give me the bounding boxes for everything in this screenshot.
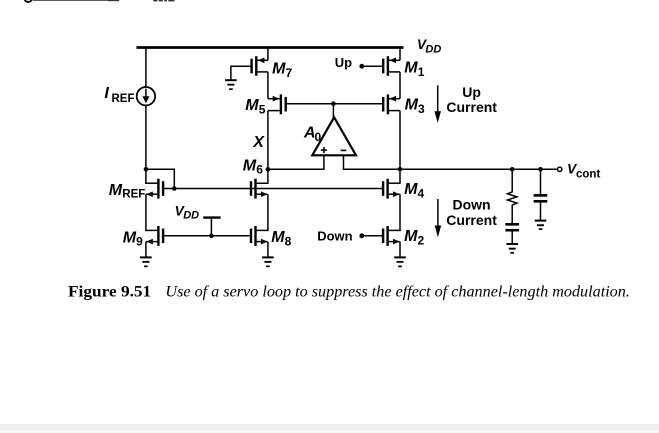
page break grey bar [0, 424, 659, 431]
transistor M6 [254, 179, 256, 199]
svg-text:Figure 9.51Use of a servo loop: Figure 9.51Use of a servo loop to suppre… [68, 284, 630, 301]
svg-text:5: 5 [259, 102, 266, 116]
svg-text:M: M [243, 157, 257, 174]
node resistor tap junction dot [510, 167, 515, 172]
wire capacitor C1 to ground [511, 232, 513, 244]
wire rail to M1 source [399, 48, 401, 61]
wire Up switch to M1 gate [363, 65, 382, 67]
svg-text:1: 1 [418, 65, 425, 79]
wire node X to plus input [268, 168, 324, 170]
wire minus input to Vcont line [344, 168, 558, 170]
VDD tap bar [203, 216, 220, 218]
top cut-off text remnant: letter bottoms group 2 [153, 0, 157, 1]
svg-text:M: M [405, 97, 419, 114]
svg-text:M: M [272, 61, 286, 78]
wire rail to M7 source [267, 48, 269, 61]
node Up input dot [359, 64, 364, 69]
node Down input dot [359, 233, 364, 238]
Down current arrow [437, 199, 439, 227]
wire M4 source to M2 drain [399, 194, 401, 231]
wire Down switch to M2 gate [363, 235, 382, 237]
svg-text:M: M [123, 229, 137, 246]
ground below C1 [506, 243, 518, 245]
top cut-off text remnant: rule line [33, 0, 115, 2]
node capacitor C2 tap junction dot [538, 167, 543, 172]
op-amp plus input sign [321, 149, 327, 151]
wire Vcont to resistor R1 [511, 169, 513, 192]
wire gate bus MREF to M6 and M4 [164, 188, 382, 190]
svg-text:6: 6 [256, 163, 263, 177]
wire rail to IREF source [145, 48, 147, 88]
svg-text:I: I [104, 85, 109, 102]
wire M2 source to ground [399, 242, 401, 257]
ground below M8 [262, 256, 274, 258]
svg-text:X: X [252, 134, 265, 151]
wire M1 drain to M3 source [399, 72, 401, 99]
wire MREF drain lead [145, 182, 157, 184]
transistor M3 [387, 94, 389, 114]
wire M3 drain to Vcont node [399, 111, 401, 184]
wire op-amp output stub [332, 104, 334, 119]
capacitor C2 plates [534, 194, 548, 197]
svg-text:7: 7 [286, 66, 293, 80]
ground below C2 [535, 220, 547, 222]
svg-text:DD: DD [425, 44, 441, 56]
Up current arrow [437, 85, 439, 112]
wire M7 gate to ground [231, 66, 251, 79]
wire VDD tap vertical [210, 218, 212, 236]
transistor M1 [387, 56, 389, 76]
wire IREF to node A [145, 105, 147, 183]
current source IREF circle [137, 87, 155, 105]
svg-text:REF: REF [122, 189, 145, 201]
svg-text:0: 0 [315, 130, 322, 144]
wire op-amp minus input stub [343, 155, 345, 170]
wire M7 drain to M5 source [267, 72, 269, 99]
transistor M9 [157, 226, 159, 246]
svg-text:cont: cont [576, 168, 600, 180]
resistor R1 zigzag [508, 192, 517, 205]
transistor M2 [386, 226, 388, 246]
wire gate bus M5 to M3 with op-amp output [287, 103, 382, 105]
wire M5 drain to node X column [267, 111, 269, 170]
wire Vcont to capacitor C2 [540, 169, 542, 194]
svg-text:4: 4 [418, 186, 425, 200]
svg-text:Current: Current [446, 99, 497, 115]
svg-text:Up: Up [335, 55, 352, 70]
wire MREF gate tie (diode connection) [146, 169, 174, 188]
svg-text:8: 8 [285, 234, 292, 248]
wire M8 drain lead [257, 229, 269, 231]
svg-text:Up: Up [462, 84, 481, 100]
op-amp A0 triangle [312, 117, 356, 155]
top cut-off text remnant: letter bottoms group 1 [108, 0, 114, 1]
wire M2 drain lead [389, 229, 401, 231]
svg-text:DD: DD [183, 209, 199, 221]
svg-text:Current: Current [446, 212, 497, 228]
wire VDD supply rail [137, 46, 404, 49]
ground below M9 [140, 256, 152, 258]
current source IREF arrow [145, 89, 147, 98]
ground at M7 gate [225, 79, 237, 81]
transistor M8 [254, 226, 256, 246]
ground below M2 [394, 256, 406, 258]
svg-text:Down: Down [453, 197, 491, 213]
wire M8 source to ground [267, 242, 269, 257]
capacitor C1 plates [505, 223, 519, 226]
svg-text:REF: REF [112, 93, 135, 105]
wire M9 gate bus to M8 gate [164, 235, 250, 237]
op-amp minus input sign [341, 149, 347, 151]
svg-text:9: 9 [136, 235, 143, 249]
transistor MREF [157, 179, 159, 199]
svg-text:Down: Down [317, 228, 352, 243]
svg-text:2: 2 [418, 234, 425, 248]
transistor M5 [280, 94, 282, 114]
wire M6 drain lead [257, 169, 268, 183]
wire M4 drain lead [389, 182, 400, 184]
svg-text:M: M [404, 181, 418, 198]
node op-amp output junction dot [331, 101, 336, 106]
svg-text:M: M [404, 60, 418, 77]
wire M9 drain lead [145, 229, 157, 231]
svg-text:M: M [245, 97, 259, 114]
wire M9 source to ground [145, 242, 147, 257]
transistor M7 [255, 56, 257, 76]
svg-text:M: M [109, 182, 123, 199]
wire capacitor C2 to ground [540, 203, 542, 220]
node VDD tap junction dot [209, 234, 214, 239]
node M4 drain junction dot [398, 167, 403, 172]
wire MREF source to M9 drain [145, 194, 147, 231]
transistor M4 [386, 179, 388, 199]
node M6 drain junction dot [266, 167, 271, 172]
terminal Vcont open circle [558, 167, 562, 171]
wire resistor to capacitor C1 [511, 205, 513, 224]
svg-text:M: M [271, 229, 285, 246]
wire M6 source to M8 drain [267, 194, 269, 231]
node A junction dot (IREF / MREF drain) [144, 167, 149, 172]
top cut-off text remnant: arc glyph [25, 0, 32, 2]
svg-text:M: M [404, 228, 418, 245]
node MREF gate junction dot [172, 186, 177, 191]
wire op-amp plus input stub [323, 155, 325, 170]
svg-text:3: 3 [418, 102, 425, 116]
